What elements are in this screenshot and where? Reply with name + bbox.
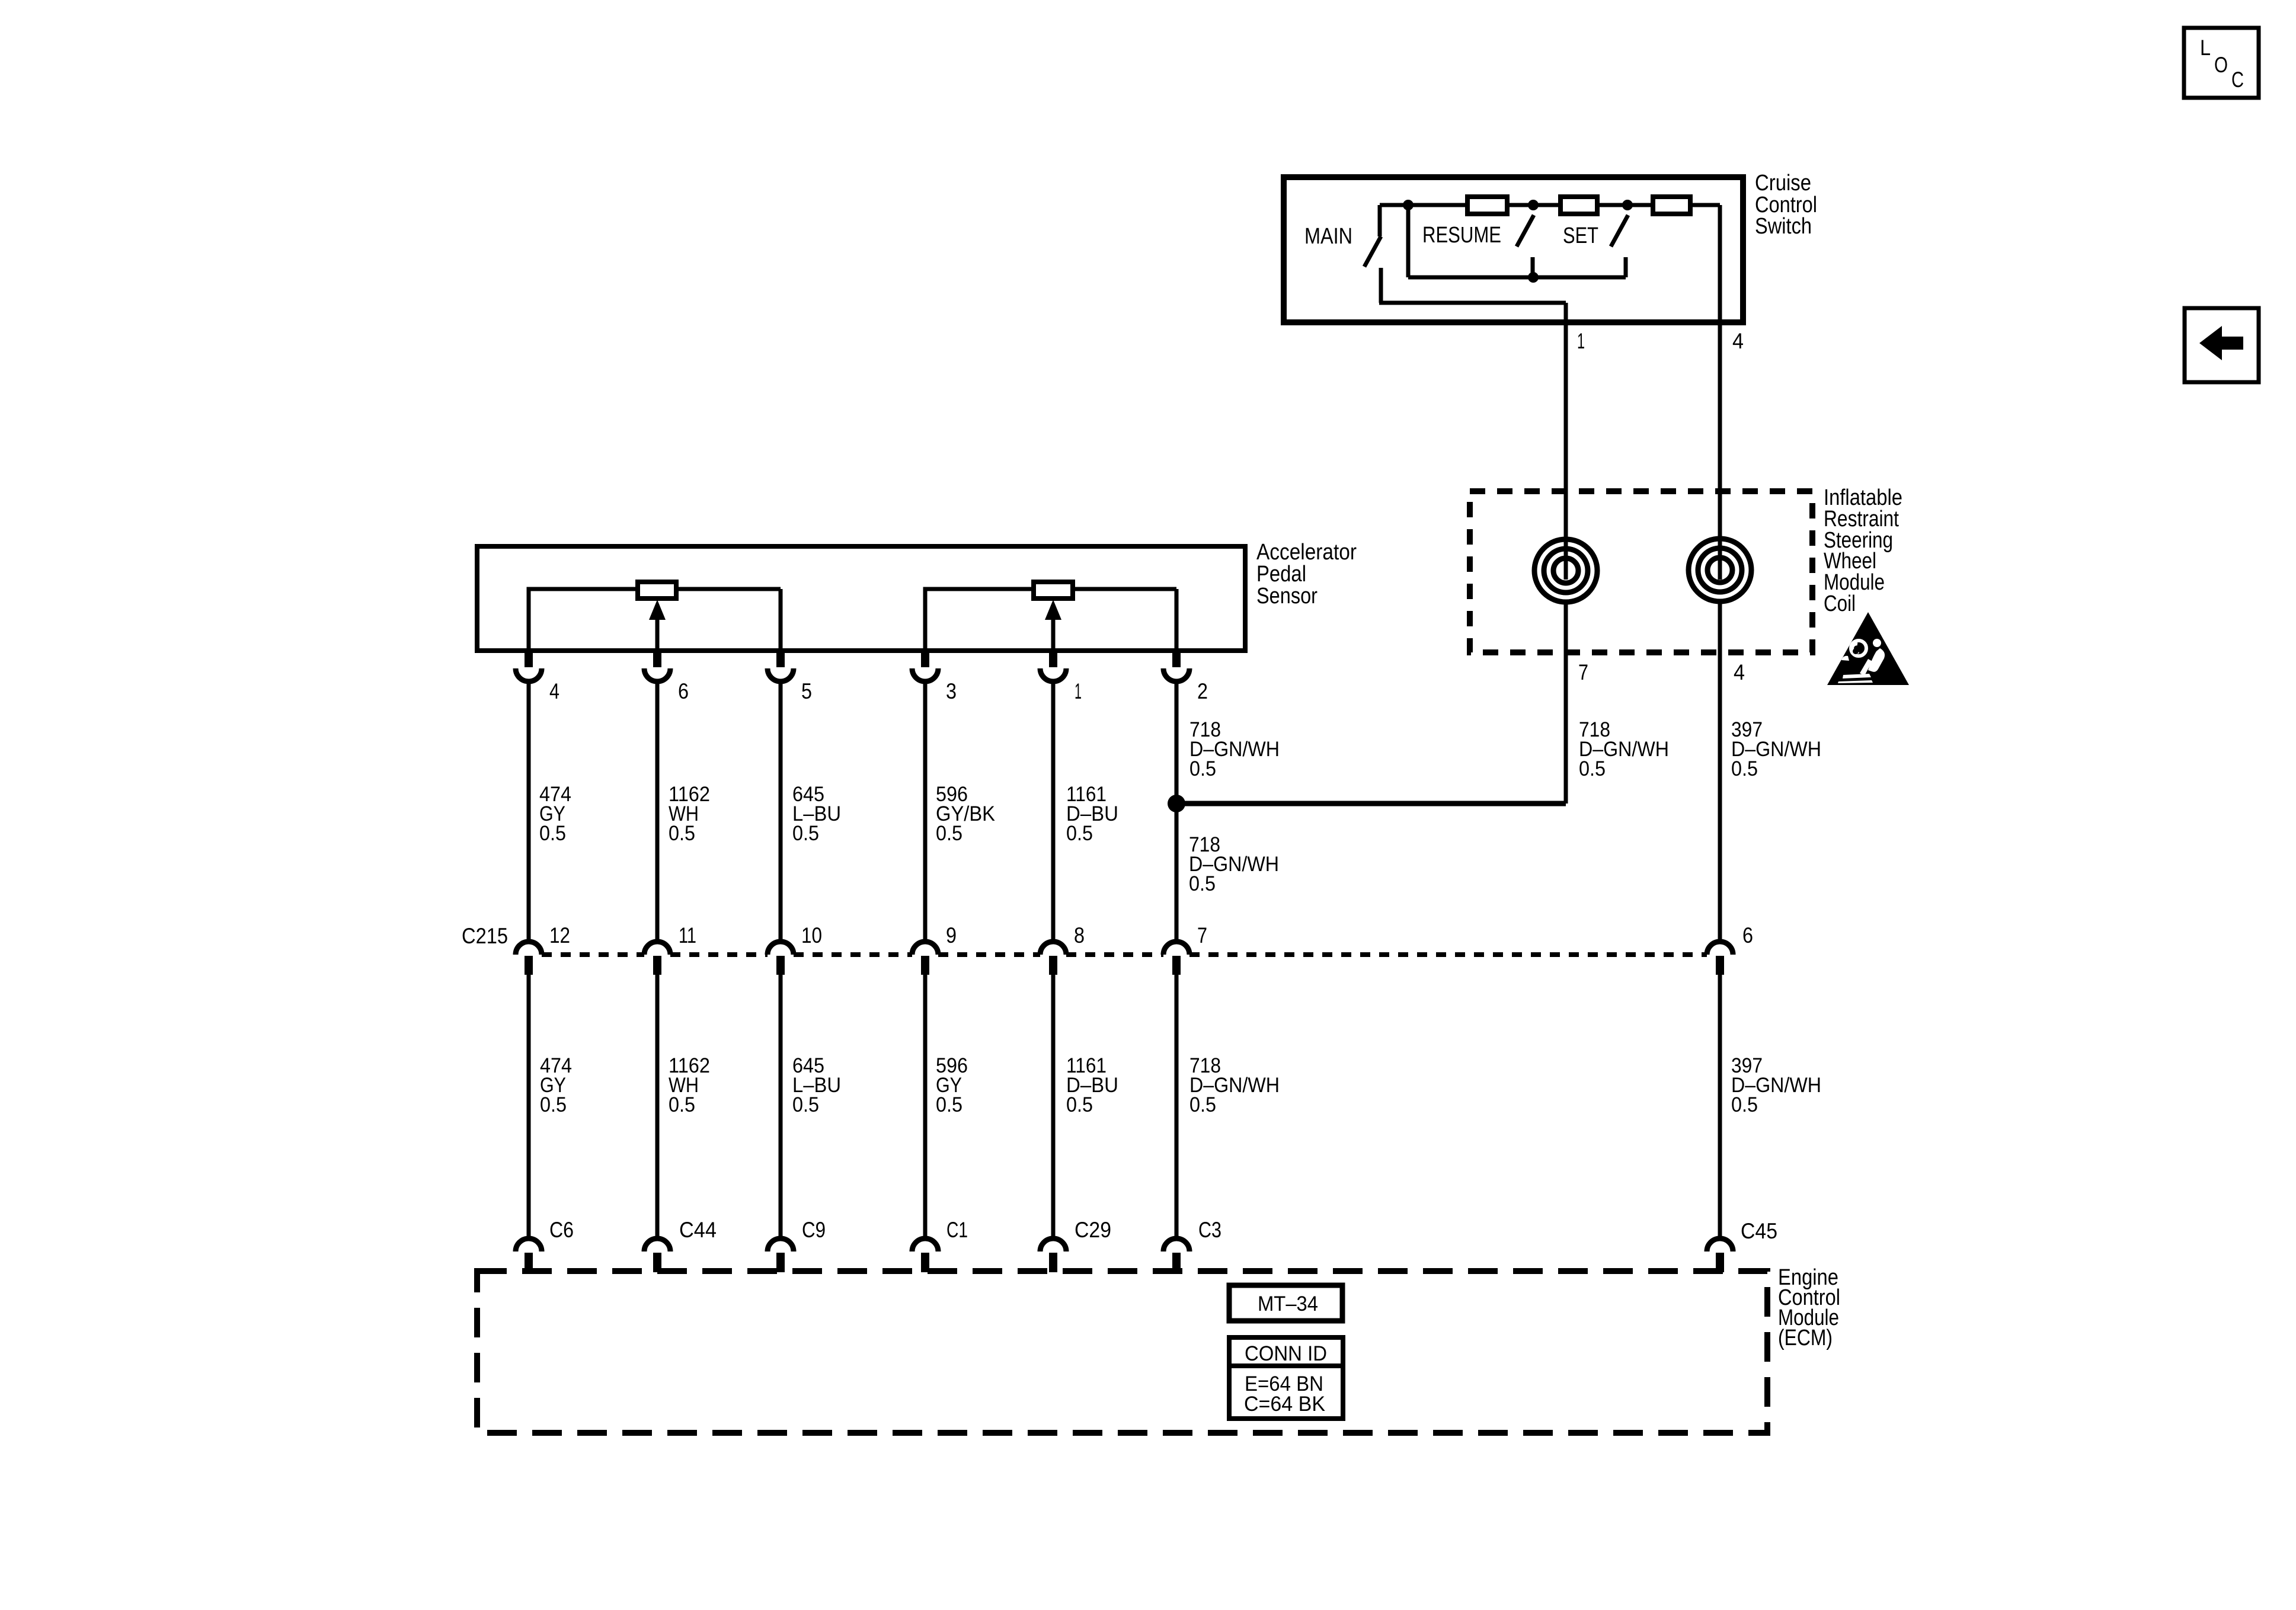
- svg-text:7: 7: [1578, 660, 1588, 684]
- svg-text:C29: C29: [1075, 1218, 1111, 1242]
- svg-text:Cruise: Cruise: [1755, 171, 1811, 196]
- ECM label: [1778, 1265, 1840, 1350]
- connector pin 1 of sensor: [1040, 652, 1066, 681]
- svg-text:C6: C6: [549, 1218, 574, 1242]
- svg-text:5: 5: [801, 679, 812, 703]
- node: RESUME top junction: [1528, 200, 1539, 210]
- svg-text:4: 4: [549, 679, 559, 703]
- wire 645 L-BU upper segment: [779, 681, 783, 942]
- C215 cavity 11 connector: [644, 942, 670, 975]
- svg-text:4: 4: [1734, 660, 1745, 684]
- svg-text:C=64 BK: C=64 BK: [1244, 1393, 1325, 1416]
- svg-text:C1: C1: [946, 1218, 968, 1242]
- wire: cruise pin 4 down into coil (right): [1718, 205, 1722, 580]
- svg-text:Pedal: Pedal: [1256, 562, 1306, 587]
- accelerator pedal sensor label: [1256, 540, 1357, 609]
- ECM terminal C6 connector: [516, 1238, 542, 1272]
- wire 1162 WH upper segment: [655, 681, 660, 942]
- svg-text:C: C: [2231, 68, 2244, 92]
- potentiometer VR2 left leg: [925, 589, 1034, 651]
- label wire 474 lower: [540, 1054, 572, 1116]
- label wire 1162 lower: [669, 1054, 710, 1116]
- svg-text:C215: C215: [462, 924, 508, 948]
- CONN ID header box: [1229, 1337, 1343, 1366]
- wire: drop from rail junction to lower rail: [1406, 205, 1411, 277]
- svg-text:CONN ID: CONN ID: [1245, 1342, 1327, 1365]
- C215 cavity 8 connector: [1040, 942, 1066, 975]
- resistor R3: [1653, 197, 1690, 214]
- svg-text:0.5: 0.5: [1066, 822, 1093, 845]
- potentiometer VR2 wiper arrow: [1051, 619, 1056, 651]
- wire 1161 D-BU upper segment: [1051, 681, 1056, 942]
- svg-text:0.5: 0.5: [1189, 872, 1216, 895]
- potentiometer VR1 wiper arrow: [655, 619, 660, 651]
- svg-text:8: 8: [1074, 923, 1085, 948]
- wire 397 D-GN/WH lower segment: [1718, 975, 1722, 1238]
- label wire 1161 lower: [1066, 1054, 1118, 1116]
- wire: SET lower contact stub: [1624, 257, 1628, 277]
- svg-text:1: 1: [1577, 329, 1585, 353]
- svg-text:4: 4: [1732, 329, 1744, 353]
- svg-text:Switch: Switch: [1755, 214, 1812, 239]
- svg-text:0.5: 0.5: [1189, 1093, 1216, 1116]
- svg-text:0.5: 0.5: [540, 1093, 567, 1116]
- svg-text:6: 6: [1742, 923, 1753, 948]
- switch MAIN blade: [1364, 236, 1381, 267]
- label wire 474 upper: [539, 783, 571, 845]
- node: rail junction A: [1403, 200, 1414, 210]
- svg-text:3: 3: [946, 679, 957, 703]
- svg-text:0.5: 0.5: [1189, 757, 1216, 780]
- svg-text:RESUME: RESUME: [1422, 223, 1501, 248]
- cruise control switch label: [1755, 171, 1817, 239]
- coil module label: [1824, 485, 1902, 616]
- connector pin 2 of sensor: [1163, 652, 1189, 681]
- svg-text:C45: C45: [1741, 1219, 1777, 1243]
- C215 cavity 12 connector: [516, 942, 542, 975]
- label wire 718 (junction to C215 segment): [1189, 833, 1279, 895]
- switch RESUME blade: [1517, 215, 1534, 247]
- label wire 397 (coil pin 4 segment): [1731, 718, 1821, 780]
- ECM dashed box: [477, 1271, 1767, 1433]
- ECM terminal C3 connector: [1163, 1238, 1189, 1272]
- connector pin 5 of sensor: [768, 652, 794, 681]
- coil L1 clockspring spiral (left): [1534, 539, 1597, 602]
- svg-text:C9: C9: [802, 1218, 826, 1242]
- svg-text:0.5: 0.5: [792, 1093, 819, 1116]
- svg-text:O: O: [2214, 53, 2228, 77]
- label wire 718 (coil pin 7 segment): [1579, 718, 1669, 780]
- accelerator pedal sensor box: [477, 546, 1245, 651]
- svg-text:6: 6: [678, 679, 689, 703]
- node: SET top junction: [1622, 200, 1633, 210]
- potentiometer VR1 resistor body: [638, 582, 676, 598]
- svg-text:9: 9: [946, 923, 957, 948]
- svg-text:0.5: 0.5: [936, 1093, 962, 1116]
- label wire 596 upper: [936, 783, 995, 845]
- wire: lower rail RESUME/SET: [1408, 276, 1626, 280]
- LOC reference box: [2184, 28, 2259, 98]
- wire: coil pin 7 down to junction: [1564, 602, 1568, 804]
- svg-text:Accelerator: Accelerator: [1256, 540, 1357, 565]
- svg-text:MT–34: MT–34: [1258, 1292, 1318, 1315]
- connector pin 4 of sensor: [516, 652, 542, 681]
- svg-text:0.5: 0.5: [1731, 757, 1758, 780]
- label wire 645 upper: [792, 783, 841, 845]
- label wire 1161 upper: [1066, 783, 1118, 845]
- node: splice junction of circuit 718: [1168, 795, 1185, 812]
- node: lower rail junction: [1528, 272, 1539, 283]
- potentiometer VR1 left leg: [529, 589, 638, 651]
- svg-text:0.5: 0.5: [792, 822, 819, 845]
- C215 cavity 6 connector: [1707, 942, 1733, 975]
- svg-text:0.5: 0.5: [669, 822, 695, 845]
- svg-text:0.5: 0.5: [1731, 1093, 1758, 1116]
- potentiometer VR1 right leg: [676, 589, 781, 651]
- wire: coil pin 4 down to C215: [1718, 602, 1722, 942]
- coil module dashed box: [1470, 491, 1812, 652]
- svg-text:0.5: 0.5: [669, 1093, 695, 1116]
- wire: MAIN lower contact: [1379, 268, 1383, 303]
- wire: rail left drop to MAIN switch: [1378, 205, 1382, 236]
- wire: MAIN output run to pin 1: [1379, 301, 1566, 305]
- coil L2 clockspring spiral (right): [1689, 539, 1751, 601]
- ECM terminal C44 connector: [644, 1238, 670, 1272]
- svg-text:0.5: 0.5: [1579, 757, 1606, 780]
- wire 718 D-GN/WH lower segment: [1175, 975, 1179, 1238]
- svg-text:10: 10: [801, 923, 822, 948]
- wire 596 GY lower segment: [923, 975, 928, 1238]
- resistor R1: [1467, 197, 1507, 214]
- label wire 596 lower: [936, 1054, 968, 1116]
- ECM terminal C45 connector: [1707, 1238, 1733, 1272]
- label wire 718 (APS pin 2 segment): [1189, 718, 1280, 780]
- wire 718 D-GN/WH upper segment (pin 2 to junction to C215): [1175, 681, 1179, 942]
- label wire 397 lower: [1731, 1054, 1821, 1116]
- wire 474 GY lower segment: [527, 975, 531, 1238]
- wire: cruise pin 1 down into coil (left): [1564, 303, 1568, 580]
- svg-text:0.5: 0.5: [1066, 1093, 1093, 1116]
- svg-text:0.5: 0.5: [539, 822, 566, 845]
- cruise control switch box: [1284, 177, 1743, 322]
- label wire 718 lower: [1189, 1054, 1280, 1116]
- wire 474 GY upper segment: [527, 681, 531, 942]
- svg-text:11: 11: [679, 923, 696, 948]
- wire: junction horizontal 718 tie: [1176, 801, 1566, 806]
- wire 645 L-BU lower segment: [779, 975, 783, 1238]
- C215 cavity 9 connector: [912, 942, 938, 975]
- back-arrow navigation box: [2185, 308, 2259, 382]
- connector pin 6 of sensor: [644, 652, 670, 681]
- SIR caution triangle symbol: [1827, 612, 1909, 685]
- svg-text:C3: C3: [1198, 1218, 1221, 1242]
- svg-text:Sensor: Sensor: [1256, 584, 1318, 609]
- svg-text:MAIN: MAIN: [1304, 224, 1352, 249]
- wire 596 GY/BK upper segment: [923, 681, 928, 942]
- svg-text:2: 2: [1197, 679, 1208, 703]
- ECM terminal C1 connector: [912, 1238, 938, 1272]
- svg-text:1: 1: [1075, 679, 1082, 703]
- wire: top rail inside switch: [1380, 203, 1720, 207]
- svg-text:C44: C44: [679, 1218, 717, 1242]
- ECM terminal C9 connector: [768, 1238, 794, 1272]
- C215 cavity 10 connector: [768, 942, 794, 975]
- label wire 1162 upper: [669, 783, 710, 845]
- MT-34 reference box: [1229, 1285, 1342, 1321]
- connector pin 3 of sensor: [912, 652, 938, 681]
- svg-text:SET: SET: [1563, 223, 1598, 248]
- potentiometer VR2 resistor body: [1034, 582, 1073, 598]
- wire 1161 D-BU lower segment: [1051, 975, 1056, 1238]
- label wire 645 lower: [792, 1054, 841, 1116]
- switch SET blade: [1611, 215, 1628, 247]
- svg-text:Coil: Coil: [1824, 591, 1856, 616]
- potentiometer VR2 right leg: [1073, 589, 1176, 651]
- svg-text:7: 7: [1197, 923, 1207, 948]
- C215 cavity 7 connector: [1163, 942, 1189, 975]
- svg-text:0.5: 0.5: [936, 822, 962, 845]
- svg-text:L: L: [2200, 36, 2211, 60]
- C215 dashed connector line: [542, 952, 1707, 957]
- svg-text:(ECM): (ECM): [1778, 1326, 1833, 1350]
- wire 1162 WH lower segment: [655, 975, 660, 1238]
- wire: RESUME lower contact stub: [1531, 257, 1535, 277]
- ECM terminal C29 connector: [1040, 1238, 1066, 1272]
- CONN ID table box: [1229, 1366, 1343, 1419]
- resistor R2: [1560, 197, 1597, 214]
- svg-text:12: 12: [549, 923, 570, 948]
